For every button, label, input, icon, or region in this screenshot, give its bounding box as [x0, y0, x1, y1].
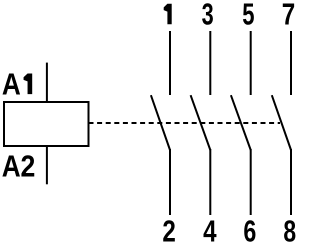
- svg-text:3: 3: [202, 0, 214, 31]
- wire A2 terminal: [46, 145, 48, 184]
- contact blade 5-6: [231, 95, 251, 150]
- svg-text:A: A: [2, 150, 21, 185]
- contact blade 1-2: [151, 95, 170, 150]
- svg-text:2: 2: [162, 214, 175, 243]
- svg-text:2: 2: [20, 150, 35, 184]
- svg-text:4: 4: [203, 214, 217, 243]
- svg-text:5: 5: [242, 0, 254, 31]
- wire terminal 7: [290, 31, 292, 95]
- pin 7: [282, 0, 295, 31]
- pin 4: [203, 214, 217, 243]
- coil K1: [4, 102, 89, 146]
- label A1: [2, 67, 32, 102]
- mechanical linkage (dashed): [89, 122, 281, 124]
- svg-text:8: 8: [283, 213, 296, 243]
- pin 5: [242, 0, 254, 31]
- pin 1: [164, 4, 172, 25]
- wire terminal 1: [169, 31, 171, 95]
- pin 8: [283, 213, 296, 243]
- wire terminal 6: [250, 149, 252, 215]
- label A2: [2, 150, 35, 185]
- wire A1 terminal: [46, 63, 48, 103]
- wire terminal 4: [209, 149, 211, 215]
- contact blade 3-4: [191, 95, 211, 150]
- wire terminal 3: [209, 31, 211, 95]
- svg-text:6: 6: [243, 213, 256, 243]
- pin 2: [162, 214, 175, 243]
- pin 3: [202, 0, 214, 31]
- wire terminal 8: [290, 149, 292, 215]
- svg-text:7: 7: [282, 0, 295, 31]
- svg-text:A: A: [2, 67, 21, 102]
- pin 6: [243, 213, 256, 243]
- wire terminal 5: [250, 31, 252, 95]
- wire terminal 2: [169, 149, 171, 215]
- contact blade 7-8: [272, 95, 291, 150]
